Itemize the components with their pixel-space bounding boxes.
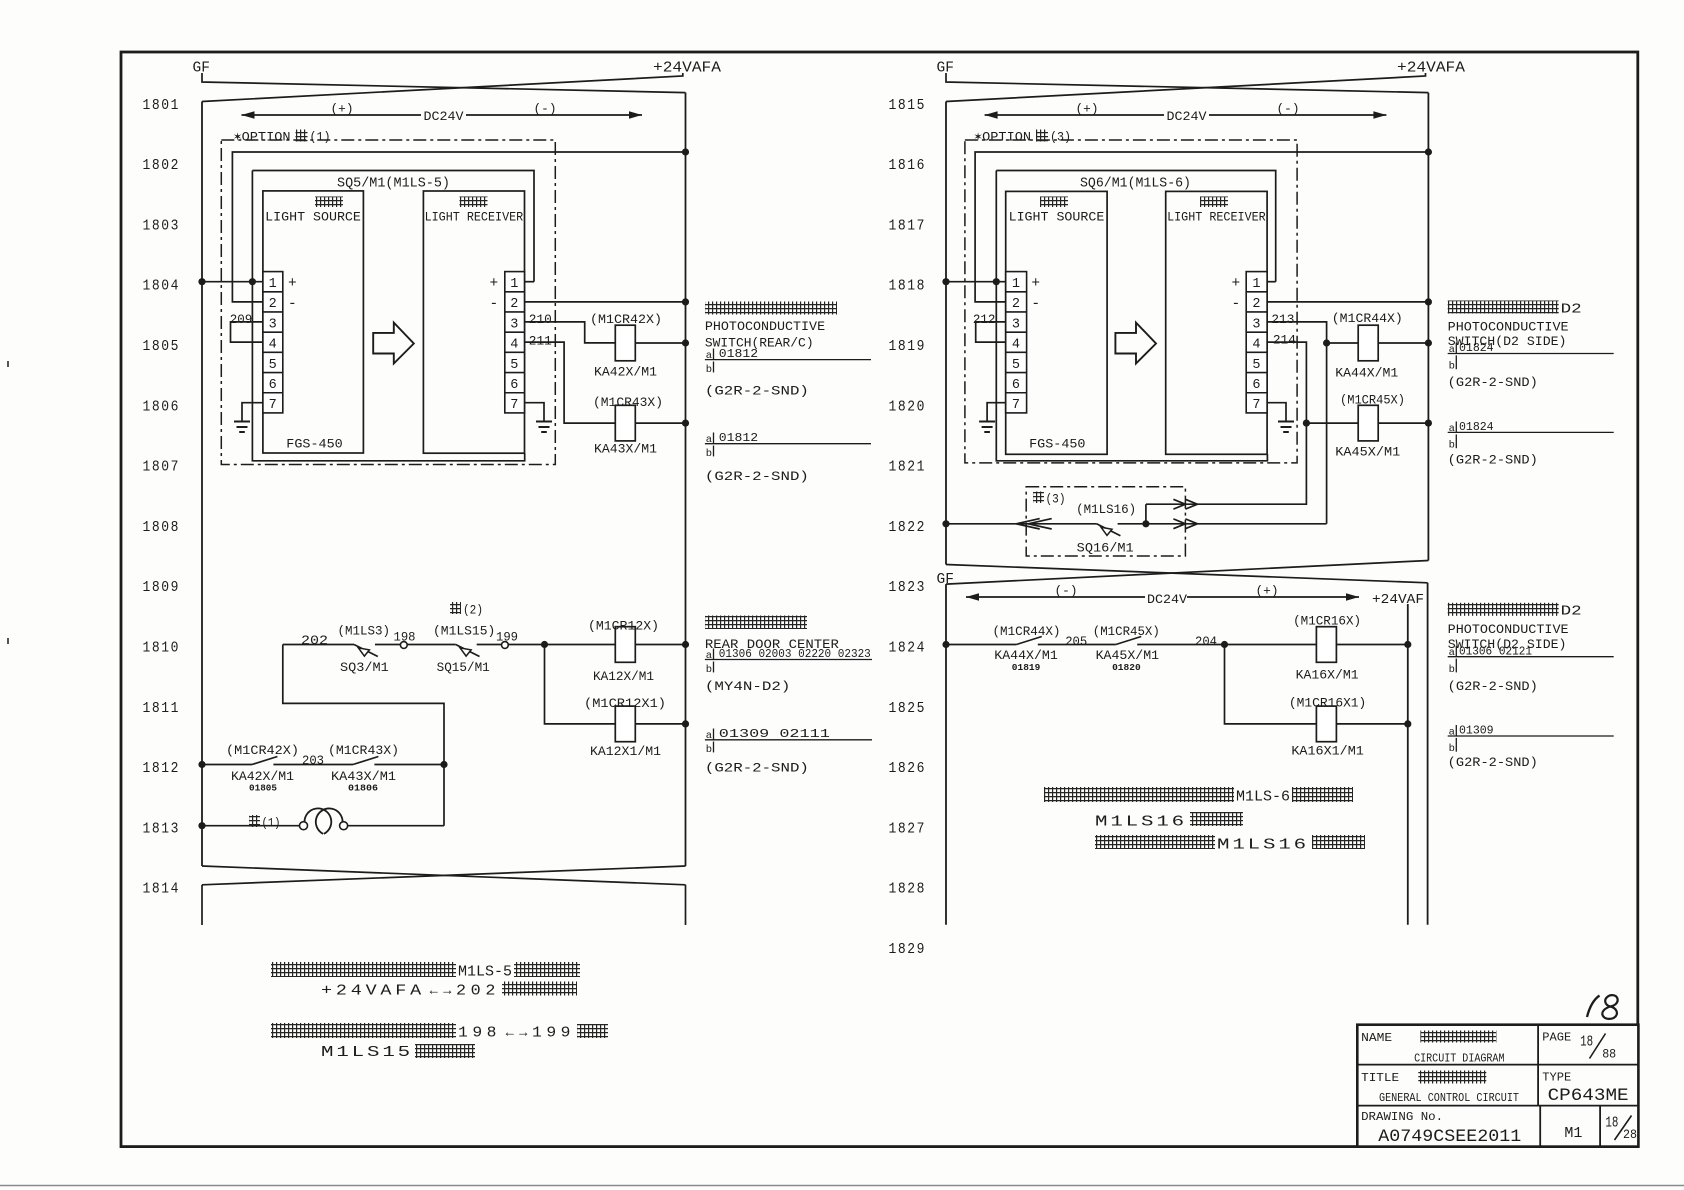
svg-text:+24VAFA: +24VAFA bbox=[1397, 61, 1465, 77]
svg-text:205: 205 bbox=[1065, 634, 1087, 649]
relay contact KA44X/M1 (M1CR44X) row 1824 bbox=[1016, 637, 1041, 645]
svg-text:01805: 01805 bbox=[249, 782, 277, 793]
svg-text:KA43X/M1: KA43X/M1 bbox=[594, 441, 657, 456]
removable link jumper row 1813 bbox=[300, 822, 308, 830]
junction GF bus row 1804 bbox=[198, 278, 205, 285]
wire +24VAFA drop to GF bus (left X crossing) bbox=[202, 73, 683, 102]
svg-text:b: b bbox=[1449, 361, 1455, 373]
svg-text:7: 7 bbox=[269, 398, 277, 413]
wire 198 to SQ15 bbox=[407, 644, 456, 646]
wire jog to upper chevron row bbox=[1145, 504, 1147, 524]
svg-text:b: b bbox=[706, 364, 712, 376]
OPTION dash-dot boundary box note(1) bbox=[221, 140, 555, 465]
junction SQ6 box edge row 1818 bbox=[993, 278, 1000, 285]
junction tap bus KA16X1 row bbox=[1404, 720, 1411, 727]
svg-text:1824: 1824 bbox=[889, 640, 927, 657]
description 後面光電スイッチ/D2 upper bbox=[1448, 301, 1559, 314]
svg-text:+: + bbox=[1232, 276, 1241, 292]
wire KA42X coil to bus bbox=[635, 342, 685, 344]
svg-text:1827: 1827 bbox=[889, 820, 927, 837]
note ref 注(3) in SQ16 box bbox=[1033, 492, 1044, 504]
svg-text:28: 28 bbox=[1623, 1127, 1637, 1142]
junction GF bus row 1822 bbox=[942, 520, 949, 527]
svg-text:b: b bbox=[1449, 664, 1455, 676]
svg-text:1807: 1807 bbox=[143, 459, 181, 476]
svg-text:1804: 1804 bbox=[143, 278, 181, 295]
note 注(1) text block bbox=[271, 962, 456, 977]
source terminal strip pins 1-7 (right) bbox=[1006, 272, 1027, 413]
svg-text:PAGE: PAGE bbox=[1542, 1031, 1571, 1045]
wire row 1804: GF bus to source pin1 bbox=[202, 281, 263, 283]
relay coil KA12X/M1 (M1CR12X) bbox=[615, 627, 635, 663]
relay contact KA43X/M1 (M1CR43X) row 1812 bbox=[353, 757, 378, 765]
relay coil KA45X/M1 (M1CR45X) bbox=[1306, 422, 1358, 424]
svg-text:KA44X/M1: KA44X/M1 bbox=[994, 648, 1058, 663]
svg-text:b: b bbox=[1449, 440, 1455, 452]
wire to coil KA16X bbox=[1225, 644, 1317, 646]
wire KA43X coil to bus bbox=[635, 422, 685, 424]
svg-text:+: + bbox=[1031, 276, 1040, 292]
svg-text:2: 2 bbox=[510, 297, 518, 312]
svg-text:(-): (-) bbox=[1055, 584, 1078, 599]
svg-text:1818: 1818 bbox=[889, 278, 927, 295]
svg-text:1803: 1803 bbox=[143, 217, 181, 234]
svg-text:KA45X/M1: KA45X/M1 bbox=[1096, 648, 1160, 663]
description 後面光電スイッチ/D2 lower bbox=[1448, 603, 1559, 616]
relay coil KA44X/M1 (M1CR44X) bbox=[1327, 342, 1359, 344]
junction bus KA44X row bbox=[1425, 339, 1432, 346]
svg-text:(2): (2) bbox=[463, 603, 483, 618]
svg-text:SQ3/M1: SQ3/M1 bbox=[340, 660, 389, 675]
junction tap bus KA16X row bbox=[1404, 641, 1411, 648]
svg-text:(+): (+) bbox=[1256, 584, 1279, 599]
svg-text:(-): (-) bbox=[1277, 102, 1300, 117]
junction GF bus row 1818 bbox=[942, 278, 949, 285]
svg-text:✶OPTION: ✶OPTION bbox=[974, 130, 1031, 145]
scan speckles left margin bbox=[7, 361, 9, 644]
note 注(3) text block bbox=[1044, 787, 1234, 802]
svg-text:(M1CR42X): (M1CR42X) bbox=[226, 743, 299, 758]
svg-text:NAME: NAME bbox=[1361, 1031, 1392, 1045]
junction bus KA12X1 row bbox=[682, 720, 689, 727]
wire 204 segment bbox=[1137, 644, 1224, 646]
junction wire214 / KA45X row bbox=[1303, 420, 1310, 427]
svg-text:DRAWING No.: DRAWING No. bbox=[1361, 1110, 1443, 1124]
limit switch contact SQ15/M1 (M1LS15) bbox=[456, 645, 480, 657]
svg-text:1812: 1812 bbox=[143, 760, 181, 777]
wire receiver pin2 to bus (right) bbox=[1267, 301, 1428, 303]
wire source pin2(-) to bus (inner box, right) bbox=[975, 152, 1428, 302]
svg-text:1822: 1822 bbox=[889, 519, 927, 536]
wire +24VAFA drop (right X crossing) bbox=[946, 73, 1426, 102]
svg-text:1: 1 bbox=[1012, 277, 1020, 292]
svg-text:KA16X1/M1: KA16X1/M1 bbox=[1291, 744, 1363, 759]
svg-text:(M1CR16X): (M1CR16X) bbox=[1293, 613, 1361, 628]
relay coil KA12X1/M1 (M1CR12X1) bbox=[615, 706, 635, 742]
junction bus / pin2 wire (right) bbox=[1425, 148, 1432, 155]
svg-text:GENERAL CONTROL CIRCUIT: GENERAL CONTROL CIRCUIT bbox=[1379, 1091, 1519, 1105]
svg-text:✶OPTION: ✶OPTION bbox=[234, 130, 291, 145]
svg-text:1802: 1802 bbox=[143, 157, 181, 174]
svg-text:198: 198 bbox=[458, 1026, 501, 1042]
svg-text:LIGHT SOURCE: LIGHT SOURCE bbox=[1009, 210, 1105, 225]
wire KA12X coil to bus bbox=[635, 644, 685, 646]
wire source pin2(-) to +24VAFA bus (inner box, left) bbox=[232, 152, 685, 302]
junction SQ5 box edge row 1804 bbox=[249, 278, 256, 285]
wire +24VAF tap bus (x=1407.8) bbox=[1407, 604, 1409, 925]
svg-text:SQ6/M1(M1LS-6): SQ6/M1(M1LS-6) bbox=[1080, 177, 1191, 192]
signal arrow source->receiver (left) bbox=[373, 323, 414, 364]
svg-text:D2: D2 bbox=[1561, 604, 1582, 620]
svg-text:211: 211 bbox=[529, 333, 552, 348]
svg-text:4: 4 bbox=[1252, 338, 1260, 353]
svg-text:KA42X/M1: KA42X/M1 bbox=[594, 364, 657, 379]
note ref 注(2) bbox=[450, 602, 461, 614]
svg-text:204: 204 bbox=[1195, 634, 1217, 649]
svg-text:M1LS-6: M1LS-6 bbox=[1236, 790, 1290, 806]
svg-text:M1: M1 bbox=[1564, 1126, 1582, 1142]
wire row 1810 left L-bend down to 1813 bbox=[283, 645, 444, 826]
svg-text:M1LS16: M1LS16 bbox=[1095, 815, 1187, 831]
svg-text:6: 6 bbox=[510, 378, 518, 393]
svg-text:KA45X/M1: KA45X/M1 bbox=[1335, 444, 1400, 459]
note ref 注(1) row 1813 bbox=[249, 815, 260, 827]
SQ5/M1 unit outline box bbox=[252, 171, 534, 282]
svg-text:214: 214 bbox=[1273, 333, 1296, 348]
svg-text:5: 5 bbox=[1012, 358, 1020, 373]
wire KA16X coil to bus bbox=[1336, 644, 1407, 646]
svg-text:SQ5/M1(M1LS-5): SQ5/M1(M1LS-5) bbox=[337, 177, 450, 192]
note 注(2) text block bbox=[271, 1023, 456, 1038]
svg-text:b: b bbox=[706, 448, 712, 460]
svg-text:7: 7 bbox=[510, 398, 518, 413]
svg-text:1814: 1814 bbox=[143, 881, 181, 898]
svg-text:5: 5 bbox=[510, 358, 518, 373]
svg-text:(M1CR12X1): (M1CR12X1) bbox=[584, 696, 666, 711]
label 受光器 (left) bbox=[460, 197, 488, 208]
source terminal strip pins 1-7 (left) bbox=[263, 272, 283, 413]
wire KA44X coil to bus bbox=[1378, 342, 1428, 344]
junction wire213 / KA44X row bbox=[1323, 339, 1330, 346]
junction KA12X branch bbox=[541, 641, 548, 648]
svg-text:01819: 01819 bbox=[1012, 662, 1041, 673]
svg-text:1: 1 bbox=[269, 277, 277, 292]
label 投光器 (right) bbox=[1040, 197, 1068, 208]
svg-text:KA16X/M1: KA16X/M1 bbox=[1296, 667, 1359, 682]
svg-text:18: 18 bbox=[1605, 1116, 1618, 1132]
wire branch to KA12X1 bbox=[545, 645, 616, 724]
svg-text:←→: ←→ bbox=[503, 1025, 530, 1041]
junction 1812 row / riser bbox=[440, 761, 447, 768]
relay coil KA16X1/M1 (M1CR16X1) bbox=[1316, 706, 1336, 742]
svg-text:1829: 1829 bbox=[889, 941, 927, 958]
svg-text:(3): (3) bbox=[1050, 130, 1071, 145]
svg-text:4: 4 bbox=[510, 338, 518, 353]
svg-text:1808: 1808 bbox=[143, 519, 181, 536]
handwritten page number 18 bbox=[1587, 996, 1600, 1018]
svg-text:1816: 1816 bbox=[889, 157, 927, 174]
svg-text:199: 199 bbox=[532, 1026, 575, 1042]
svg-text:1821: 1821 bbox=[889, 459, 927, 476]
svg-text:DC24V: DC24V bbox=[1147, 592, 1187, 607]
junction KA16X branch bbox=[1221, 641, 1228, 648]
relay contact KA42X/M1 (M1CR42X) row 1812 bbox=[252, 757, 277, 765]
wire GF continuation stub bbox=[201, 885, 203, 925]
wire jumper to riser bbox=[348, 825, 444, 827]
svg-text:(M1LS16): (M1LS16) bbox=[1076, 502, 1136, 517]
svg-text:1823: 1823 bbox=[889, 579, 927, 596]
LIGHT SOURCE unit box (left) bbox=[263, 191, 364, 453]
junction GF bus row 1824 bbox=[942, 641, 949, 648]
svg-text:1805: 1805 bbox=[143, 338, 181, 355]
svg-text:6: 6 bbox=[269, 378, 277, 393]
svg-text:3: 3 bbox=[1252, 317, 1260, 332]
wire KA16X1 coil to bus bbox=[1336, 723, 1407, 725]
wire left GF bus (x=202) bbox=[201, 102, 203, 867]
junction GF bus row 1813 bbox=[198, 822, 205, 829]
description 後面扉/中央 (rear door center) bbox=[705, 616, 807, 630]
wire 205 segment bbox=[1038, 644, 1116, 646]
connector chevrons right lower (to wire 213) bbox=[1173, 519, 1185, 529]
svg-text:TITLE: TITLE bbox=[1361, 1071, 1399, 1085]
svg-text:←→: ←→ bbox=[427, 983, 454, 999]
svg-text:+24VAFA: +24VAFA bbox=[653, 61, 721, 77]
svg-text:4: 4 bbox=[1012, 338, 1020, 353]
svg-text:(-): (-) bbox=[534, 102, 557, 117]
wire row 1810 segment to SQ3 bbox=[283, 644, 354, 646]
svg-text:b: b bbox=[706, 664, 712, 676]
wire +24VAFA continuation stub bbox=[685, 885, 687, 925]
svg-text:202: 202 bbox=[301, 633, 328, 648]
wire 199 to junction bbox=[508, 644, 544, 646]
svg-text:1815: 1815 bbox=[889, 97, 927, 114]
DC24V polarity arrow (left half) bbox=[242, 114, 422, 116]
svg-text:b: b bbox=[706, 744, 712, 756]
svg-text:KA44X/M1: KA44X/M1 bbox=[1335, 365, 1398, 380]
svg-text:1826: 1826 bbox=[889, 760, 927, 777]
svg-text:1819: 1819 bbox=[889, 338, 927, 355]
svg-text:+: + bbox=[490, 276, 499, 292]
svg-text:CIRCUIT DIAGRAM: CIRCUIT DIAGRAM bbox=[1414, 1051, 1504, 1065]
ground receiver unit (left) bbox=[525, 403, 545, 421]
junction bus KA43X row bbox=[682, 420, 689, 427]
svg-text:LIGHT RECEIVER: LIGHT RECEIVER bbox=[425, 210, 524, 225]
svg-text:1801: 1801 bbox=[143, 97, 181, 114]
svg-text:KA12X1/M1: KA12X1/M1 bbox=[590, 744, 661, 759]
svg-text:(M1CR12X): (M1CR12X) bbox=[588, 619, 659, 634]
svg-text:1825: 1825 bbox=[889, 700, 927, 717]
relay coil KA42X/M1 (M1CR42X) bbox=[615, 325, 635, 361]
svg-text:-: - bbox=[490, 297, 499, 313]
svg-text:(MY4N-D2): (MY4N-D2) bbox=[705, 679, 791, 694]
svg-text:DC24V: DC24V bbox=[424, 109, 464, 124]
svg-text:M1LS15: M1LS15 bbox=[321, 1045, 413, 1061]
svg-text:(G2R-2-SND): (G2R-2-SND) bbox=[1448, 452, 1538, 467]
svg-text:210: 210 bbox=[529, 312, 552, 327]
svg-text:1813: 1813 bbox=[143, 820, 181, 837]
svg-text:(M1CR43X): (M1CR43X) bbox=[593, 395, 663, 410]
svg-text:7: 7 bbox=[1252, 398, 1260, 413]
SQ6/M1 unit outline box bbox=[996, 171, 1275, 282]
svg-text:-: - bbox=[1232, 297, 1241, 313]
relay contact KA45X/M1 (M1CR45X) row 1824 bbox=[1116, 637, 1141, 645]
wire 203 segment bbox=[273, 764, 353, 766]
svg-text:4: 4 bbox=[269, 338, 277, 353]
svg-text:LIGHT SOURCE: LIGHT SOURCE bbox=[265, 210, 361, 225]
label 投光器 (left) bbox=[315, 197, 343, 208]
bottom scan line bbox=[0, 1185, 1684, 1187]
LIGHT RECEIVER unit box (left) bbox=[423, 191, 524, 453]
svg-text:1: 1 bbox=[510, 277, 518, 292]
svg-text:6: 6 bbox=[1012, 378, 1020, 393]
terminal 198 bbox=[400, 642, 407, 649]
SQ16 dash-dot option box bbox=[1026, 487, 1185, 556]
title block frame bbox=[1357, 1025, 1638, 1147]
svg-text:1: 1 bbox=[1252, 277, 1260, 292]
svg-text:5: 5 bbox=[269, 358, 277, 373]
ground source unit (right) bbox=[987, 403, 1006, 421]
svg-text:PHOTOCONDUCTIVE: PHOTOCONDUCTIVE bbox=[705, 319, 825, 334]
svg-text:M1LS16: M1LS16 bbox=[1217, 838, 1309, 854]
limit switch contact SQ16/M1 bbox=[1097, 524, 1121, 536]
svg-text:1806: 1806 bbox=[143, 398, 181, 415]
svg-text:3: 3 bbox=[510, 317, 518, 332]
page-break X crossing row 1823 bbox=[946, 565, 1428, 583]
svg-text:SQ16/M1: SQ16/M1 bbox=[1077, 540, 1134, 555]
svg-text:PHOTOCONDUCTIVE: PHOTOCONDUCTIVE bbox=[1448, 319, 1569, 334]
svg-text:(1): (1) bbox=[262, 816, 281, 831]
junction SQ16 output bbox=[1142, 520, 1149, 527]
junction bus row pin2 (right) bbox=[1425, 298, 1432, 305]
DC24V polarity arrow (lower right) bbox=[966, 596, 1145, 598]
svg-text:SQ15/M1: SQ15/M1 bbox=[437, 660, 490, 675]
svg-text:FGS-450: FGS-450 bbox=[1029, 437, 1085, 452]
svg-text:202: 202 bbox=[456, 984, 500, 1000]
svg-text:5: 5 bbox=[1252, 358, 1260, 373]
junction bus KA42X row bbox=[682, 339, 689, 346]
junction +24VAFA bus / pin2 wire (left) bbox=[682, 148, 689, 155]
svg-text:(M1CR44X): (M1CR44X) bbox=[993, 624, 1061, 639]
wire GF bus lower (right half) bbox=[945, 584, 947, 925]
junction bus KA12X row bbox=[682, 641, 689, 648]
DC24V polarity arrow (right half) bbox=[985, 114, 1164, 116]
svg-text:1810: 1810 bbox=[143, 640, 181, 657]
receiver terminal strip pins 1-7 (left) bbox=[505, 272, 525, 413]
signal arrow source->receiver (right) bbox=[1115, 323, 1156, 364]
svg-text:3: 3 bbox=[269, 317, 277, 332]
wire KA43X contact to riser bbox=[374, 764, 444, 766]
svg-text:(M1CR16X1): (M1CR16X1) bbox=[1289, 695, 1366, 710]
wire SQ15 to terminal 199 bbox=[477, 644, 502, 646]
svg-text:A0749CSEE2011: A0749CSEE2011 bbox=[1378, 1127, 1521, 1147]
svg-text:(+): (+) bbox=[1076, 102, 1099, 117]
svg-text:213: 213 bbox=[1271, 312, 1294, 327]
svg-text:(3): (3) bbox=[1046, 492, 1066, 507]
svg-text:(M1CR45X): (M1CR45X) bbox=[1093, 624, 1160, 639]
wire KA12X1 coil to bus bbox=[635, 723, 685, 725]
svg-text:6: 6 bbox=[1252, 378, 1260, 393]
wire lower chevron row to wire213 bbox=[1146, 523, 1327, 525]
svg-text:-: - bbox=[1031, 297, 1040, 313]
svg-text:2: 2 bbox=[269, 297, 277, 312]
wire branch to KA16X1 bbox=[1225, 645, 1317, 724]
svg-text:DC24V: DC24V bbox=[1167, 109, 1207, 124]
wire to coil KA12X bbox=[545, 644, 616, 646]
wire left GF bus (right half, x=946) bbox=[945, 102, 947, 565]
page-break X crossing bottom (left half) bbox=[202, 866, 686, 885]
svg-text:(G2R-2-SND): (G2R-2-SND) bbox=[705, 469, 809, 484]
junction bus row pin2 (left) bbox=[682, 298, 689, 305]
wire SQ3 to terminal 198 bbox=[375, 644, 400, 646]
wire receiver pin2 to +24VAFA bus (left) bbox=[525, 301, 686, 303]
svg-text:(G2R-2-SND): (G2R-2-SND) bbox=[1448, 375, 1538, 390]
svg-text:-: - bbox=[288, 297, 297, 313]
wire +24VAF bus lower bbox=[1427, 583, 1429, 925]
wire SQ16 to junction bbox=[1118, 523, 1146, 525]
svg-text:(M1CR42X): (M1CR42X) bbox=[590, 312, 662, 327]
svg-text:01309 02111: 01309 02111 bbox=[719, 727, 830, 741]
svg-text:PHOTOCONDUCTIVE: PHOTOCONDUCTIVE bbox=[1448, 622, 1569, 637]
wire GF drop to bus (right X crossing) bbox=[946, 73, 1428, 93]
wire row 1818: GF bus to source pin1 bbox=[946, 281, 1006, 283]
svg-text:b: b bbox=[1449, 743, 1455, 755]
wire GF drop to +24VAFA bus (left X crossing) bbox=[202, 73, 686, 93]
ground source unit (left) bbox=[242, 403, 263, 421]
OPTION dash-dot boundary box note(3) bbox=[965, 140, 1297, 463]
svg-text:(M1CR44X): (M1CR44X) bbox=[1332, 311, 1403, 326]
svg-text:KA12X/M1: KA12X/M1 bbox=[593, 669, 654, 684]
connector chevrons left (SQ16 box) bbox=[1016, 519, 1039, 529]
svg-text:198: 198 bbox=[394, 629, 416, 644]
svg-text:FGS-450: FGS-450 bbox=[286, 437, 342, 452]
svg-text:+: + bbox=[288, 276, 297, 292]
svg-text:+24VAFA: +24VAFA bbox=[321, 984, 425, 1000]
svg-text:1811: 1811 bbox=[143, 700, 181, 717]
svg-text:(1): (1) bbox=[310, 130, 331, 145]
svg-text:3: 3 bbox=[1012, 317, 1020, 332]
svg-text:(M1LS3): (M1LS3) bbox=[338, 624, 391, 639]
svg-text:M1LS-5: M1LS-5 bbox=[458, 965, 512, 981]
svg-text:1828: 1828 bbox=[889, 881, 927, 898]
svg-text:(M1CR43X): (M1CR43X) bbox=[328, 743, 399, 758]
relay coil KA16X/M1 (M1CR16X) bbox=[1316, 627, 1336, 663]
receiver terminal strip pins 1-7 (right) bbox=[1246, 272, 1267, 413]
svg-text:88: 88 bbox=[1602, 1046, 1616, 1061]
svg-text:01820: 01820 bbox=[1112, 662, 1141, 673]
svg-text:(G2R-2-SND): (G2R-2-SND) bbox=[705, 760, 809, 775]
relay coil KA43X/M1 (M1CR43X) bbox=[615, 405, 635, 441]
junction GF bus row 1812 bbox=[198, 761, 205, 768]
svg-text:1820: 1820 bbox=[889, 398, 927, 415]
svg-text:2: 2 bbox=[1012, 297, 1020, 312]
svg-text:7: 7 bbox=[1012, 398, 1020, 413]
svg-text:18: 18 bbox=[1580, 1035, 1593, 1051]
svg-text:(G2R-2-SND): (G2R-2-SND) bbox=[1448, 755, 1538, 770]
svg-text:199: 199 bbox=[496, 629, 518, 644]
svg-text:(M1CR45X): (M1CR45X) bbox=[1340, 392, 1405, 407]
svg-text:(G2R-2-SND): (G2R-2-SND) bbox=[705, 383, 809, 398]
LIGHT SOURCE unit box (right) bbox=[1006, 191, 1107, 454]
svg-text:01806: 01806 bbox=[348, 782, 378, 793]
connector chevrons right upper (to wire 214) bbox=[1173, 499, 1185, 509]
svg-text:(G2R-2-SND): (G2R-2-SND) bbox=[1448, 679, 1538, 694]
svg-text:1817: 1817 bbox=[889, 217, 927, 234]
svg-text:CP643ME: CP643ME bbox=[1548, 1086, 1629, 1106]
limit switch contact SQ3/M1 (M1LS3) bbox=[354, 645, 378, 657]
svg-text:1809: 1809 bbox=[143, 579, 181, 596]
wire right +24VAFA bus (x=685.5) bbox=[685, 93, 687, 866]
terminal 199 bbox=[502, 642, 509, 649]
